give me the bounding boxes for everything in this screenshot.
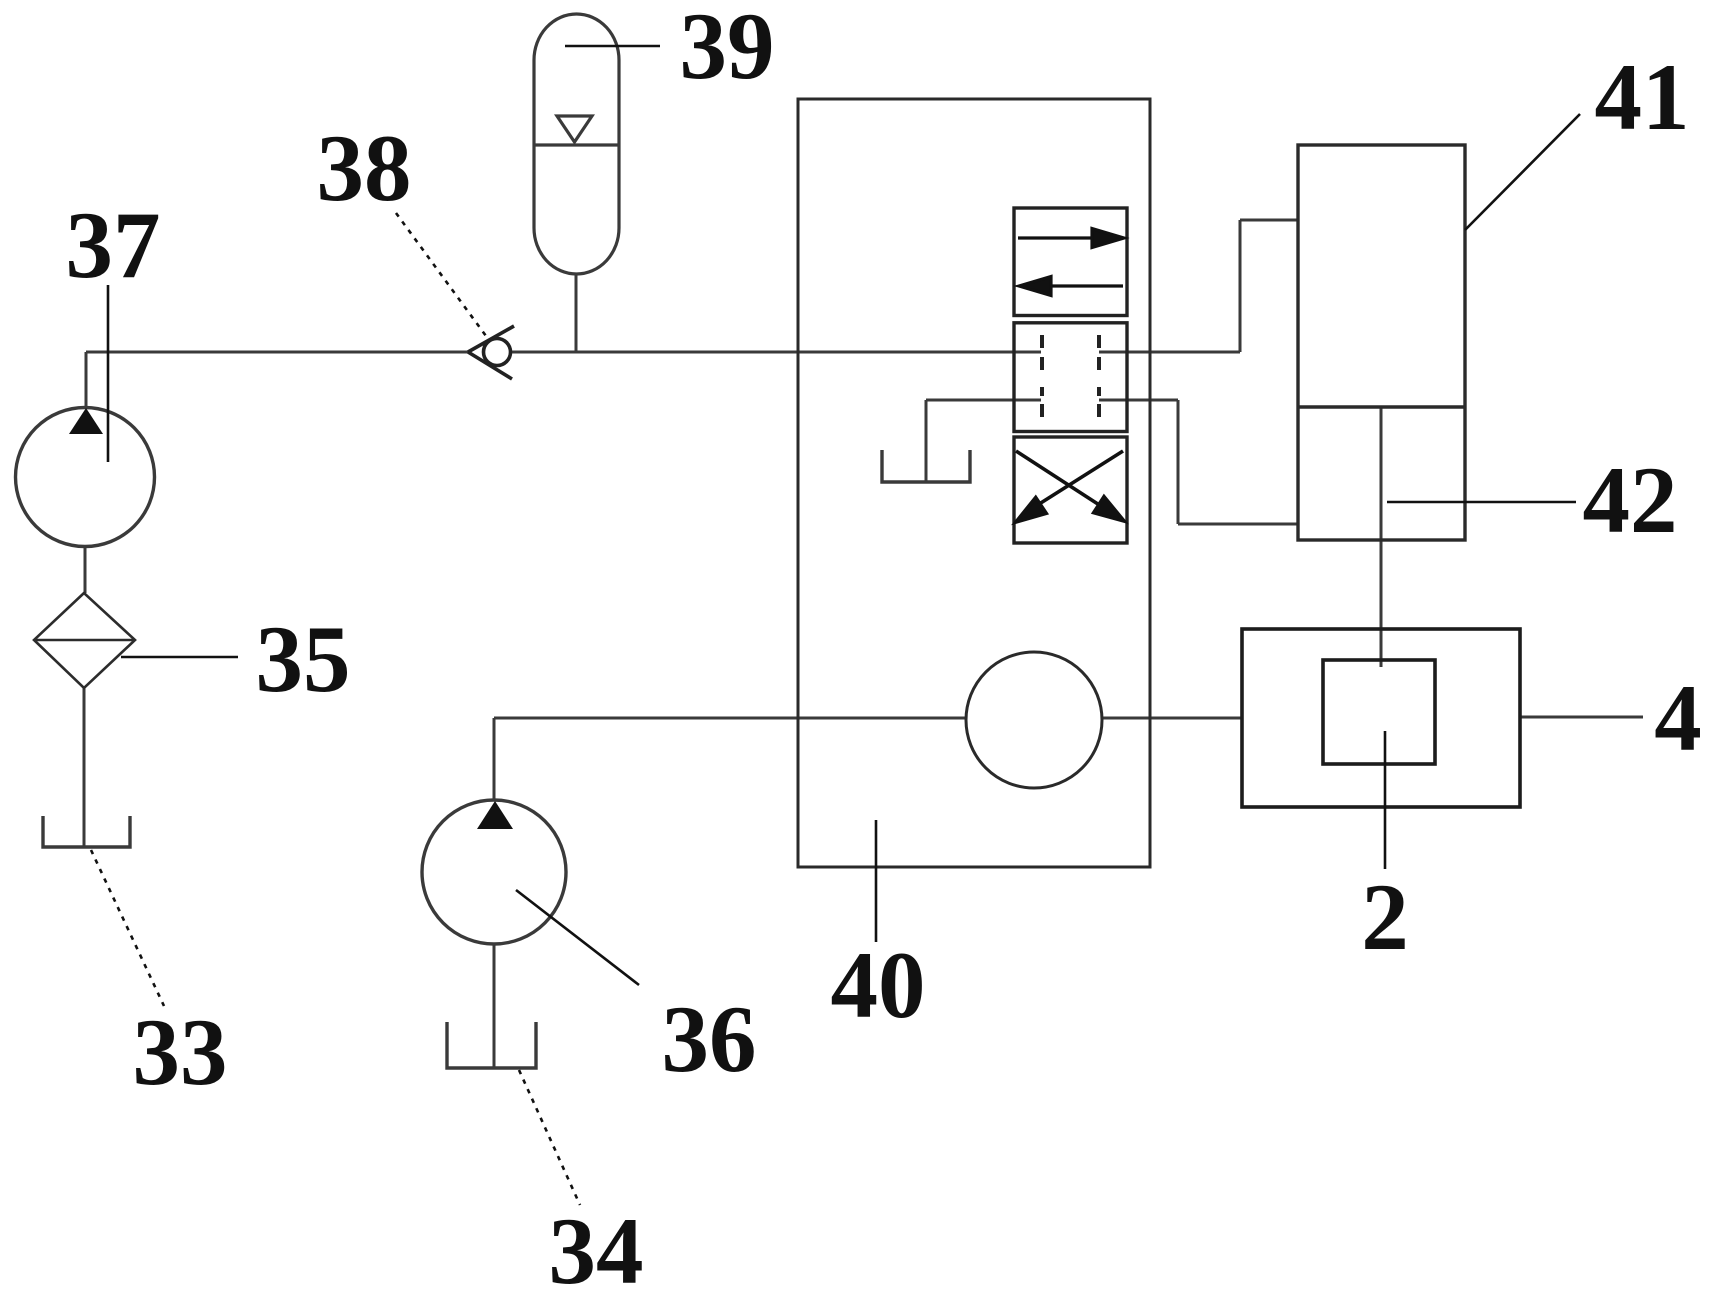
motor circle in block 40 [966, 652, 1102, 788]
wire main pressure line left segment [86, 351, 468, 354]
wire pump 37 riser [85, 352, 88, 408]
control block 40 [798, 99, 1150, 867]
valve centre port dashes left [1040, 335, 1044, 417]
svg-text:35: 35 [256, 606, 351, 712]
svg-text:40: 40 [831, 932, 926, 1038]
svg-text:36: 36 [662, 986, 757, 1092]
svg-text:41: 41 [1595, 44, 1690, 150]
wire box 4 to label 4 [1520, 716, 1643, 719]
valve crossed arrow A [1016, 451, 1124, 521]
svg-text:2: 2 [1361, 864, 1409, 970]
check valve 38 [468, 326, 514, 379]
box 4 [1242, 629, 1520, 807]
leader line 38 dashed [396, 213, 486, 336]
leader line 37 [107, 285, 110, 462]
leader line 36 [516, 890, 639, 985]
pump 36 [422, 800, 566, 944]
wire motor circle to box 4 [1102, 717, 1242, 720]
cylinder 41 body [1298, 145, 1465, 540]
wire pump 36 riser [493, 718, 496, 801]
wire main pressure line middle segment [511, 351, 1041, 354]
wire accumulator 39 stem [575, 274, 578, 352]
wire pump 36 to tank 34 [493, 943, 496, 1067]
tank 33 [43, 816, 130, 847]
valve arrow left [1019, 277, 1123, 296]
svg-text:38: 38 [317, 115, 412, 221]
svg-text:4: 4 [1654, 665, 1702, 771]
svg-text:42: 42 [1583, 447, 1678, 553]
wire valve right port A to cylinder 41 upper [1099, 220, 1298, 352]
leader line 40 [875, 820, 878, 942]
valve arrow right [1018, 229, 1124, 248]
leader line 35 [121, 656, 238, 659]
directional valve middle position box [1014, 323, 1127, 432]
accumulator 39 [534, 14, 619, 274]
tank inside block 40 [882, 450, 970, 482]
pump 36 flow triangle [477, 801, 513, 829]
wire pump 36 to motor circle [494, 717, 966, 720]
leader line 42 [1387, 501, 1576, 504]
tank 34 [447, 1022, 536, 1068]
wire valve left port B to tank in block 40 [926, 400, 1041, 482]
leader line 34 dashed [519, 1070, 580, 1205]
svg-text:37: 37 [66, 192, 161, 298]
directional valve bottom position box [1014, 437, 1127, 543]
leader line 2 [1384, 731, 1387, 869]
directional valve top position box [1014, 208, 1127, 316]
wire pump 37 to filter 35 [84, 546, 87, 593]
leader line 41 [1465, 114, 1580, 230]
leader line 39 [565, 45, 660, 48]
filter 35 [34, 593, 135, 688]
svg-text:34: 34 [549, 1198, 644, 1299]
box 2 [1323, 660, 1435, 764]
svg-text:33: 33 [133, 999, 228, 1105]
svg-text:39: 39 [680, 0, 775, 99]
valve centre port dashes right [1097, 335, 1101, 417]
wire filter 35 to tank 33 [83, 688, 86, 846]
wire piston rod 42 [1380, 407, 1383, 667]
wire valve right port B to cylinder 41 lower [1099, 400, 1298, 524]
valve crossed arrow B [1016, 451, 1123, 522]
leader line 33 dashed [91, 850, 164, 1006]
pump 37 [16, 408, 155, 547]
pump 37 flow triangle [69, 408, 103, 434]
cylinder 41 piston divider [1298, 405, 1465, 408]
